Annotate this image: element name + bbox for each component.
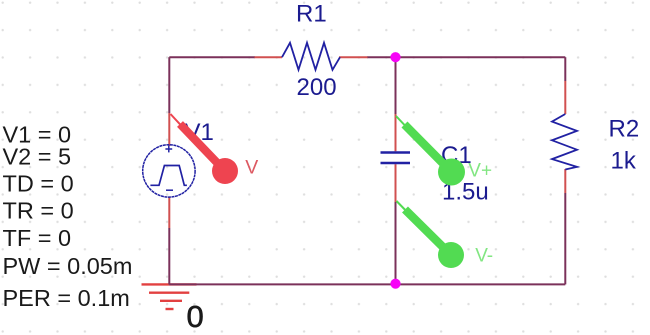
wire middle vertical upper — [395, 57, 397, 114]
wire left vertical lower — [168, 228, 170, 284]
svg-text:PER = 0.1m: PER = 0.1m — [3, 285, 130, 311]
resistor R2 — [552, 81, 639, 193]
svg-text:200: 200 — [297, 74, 337, 101]
wire right vertical upper — [564, 57, 566, 81]
svg-text:V+: V+ — [468, 160, 492, 181]
probe V- (green differential marker) — [397, 201, 494, 268]
wire right vertical lower — [564, 193, 566, 284]
wire left vertical upper — [168, 57, 170, 113]
capacitor C1 — [381, 114, 489, 206]
svg-text:V2 = 5: V2 = 5 — [3, 144, 72, 170]
probe V+ (green differential marker) — [396, 116, 492, 186]
node junction bottom — [390, 279, 400, 289]
wire top horizontal left — [169, 56, 255, 58]
svg-text:V: V — [245, 157, 258, 179]
wire top horizontal right — [367, 56, 565, 58]
node junction top — [390, 52, 400, 62]
svg-text:R2: R2 — [609, 116, 640, 143]
svg-text:R1: R1 — [296, 1, 327, 28]
svg-text:0: 0 — [187, 299, 204, 334]
voltage source V1 — [143, 113, 214, 228]
svg-text:PW = 0.05m: PW = 0.05m — [3, 253, 133, 279]
probe V (red voltage marker) — [171, 114, 259, 184]
resistor R1 — [255, 1, 368, 102]
wire middle vertical lower — [395, 202, 397, 284]
svg-text:TF = 0: TF = 0 — [3, 225, 72, 251]
ground — [142, 284, 197, 309]
svg-text:1k: 1k — [611, 147, 637, 174]
svg-text:V-: V- — [475, 245, 493, 266]
svg-text:TR = 0: TR = 0 — [3, 198, 74, 224]
wire bottom horizontal — [169, 283, 565, 285]
svg-text:TD = 0: TD = 0 — [3, 170, 74, 196]
